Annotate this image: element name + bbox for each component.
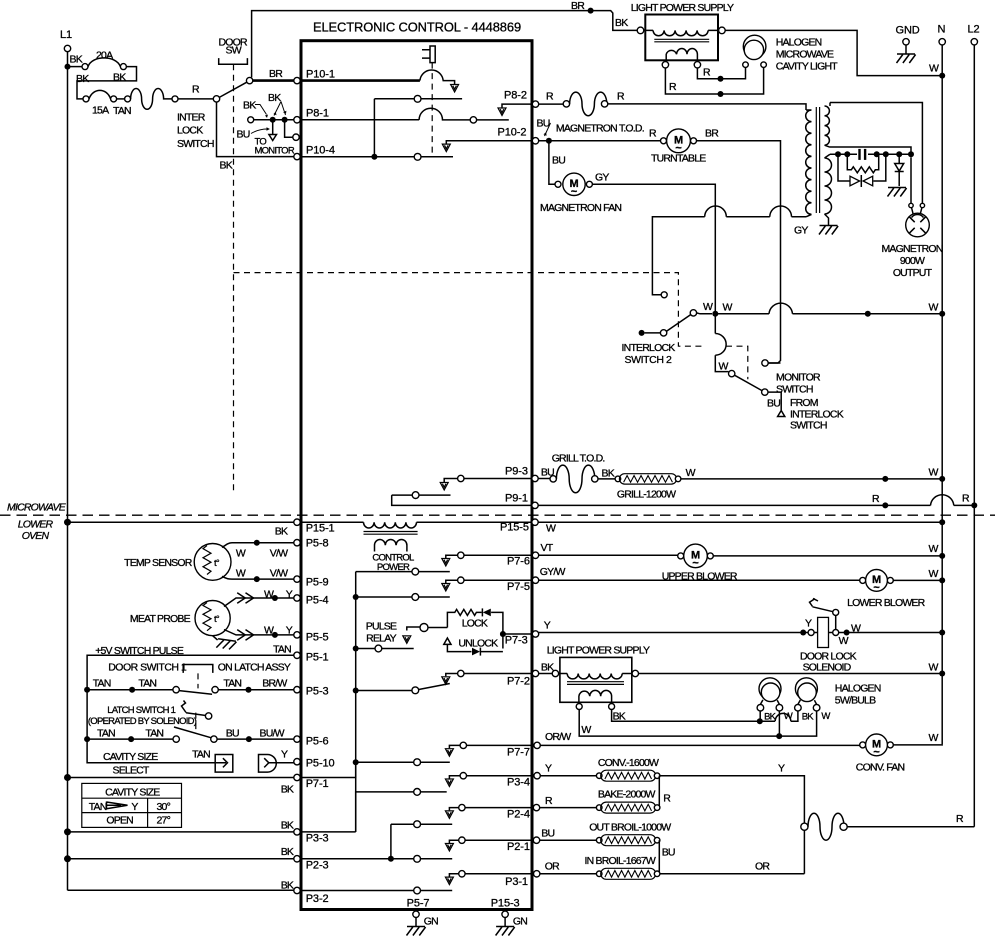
svg-text:~: ~ bbox=[873, 747, 880, 759]
latch bracket bbox=[183, 665, 213, 673]
lower blower motor bbox=[866, 570, 888, 592]
transformer T1 light power supply box bbox=[645, 15, 718, 61]
svg-text:TAN: TAN bbox=[192, 749, 210, 761]
pin P15-1 bbox=[294, 519, 300, 525]
svg-text:P5-8: P5-8 bbox=[306, 538, 329, 550]
svg-text:P5-5: P5-5 bbox=[306, 632, 329, 644]
hump over GY vertical bbox=[705, 206, 727, 217]
svg-text:MICROWAVE: MICROWAVE bbox=[776, 49, 834, 61]
svg-text:5W/BULB: 5W/BULB bbox=[835, 695, 876, 707]
svg-text:TAN: TAN bbox=[138, 678, 156, 690]
probe plug chevrons bbox=[237, 593, 253, 604]
junction bbox=[844, 630, 850, 636]
relay P7-7 contact bbox=[467, 744, 534, 746]
wire P7-2 to light supply 2 bbox=[539, 673, 553, 675]
svg-text:BU/W: BU/W bbox=[260, 728, 285, 740]
svg-text:BR/W: BR/W bbox=[262, 678, 287, 690]
svg-text:P2-4: P2-4 bbox=[507, 809, 530, 821]
svg-text:P2-1: P2-1 bbox=[507, 841, 530, 853]
svg-text:P5-10: P5-10 bbox=[306, 758, 335, 770]
svg-text:TAN: TAN bbox=[97, 728, 115, 740]
wire fuse 20A to fuse 15A bbox=[77, 67, 137, 99]
pin P10-2 bbox=[532, 138, 538, 144]
lamp pin left bbox=[743, 62, 749, 68]
junction L1 fuse branch bbox=[65, 64, 71, 70]
wire cap row to magnetron bbox=[910, 157, 912, 203]
wire contact to row bbox=[835, 615, 837, 629]
select plug female bbox=[259, 755, 277, 773]
svg-text:GY: GY bbox=[794, 225, 808, 237]
T2 right pin bbox=[632, 670, 638, 676]
latch switch 1 left terminal bbox=[173, 736, 179, 742]
wire P10-2 to arrow bbox=[446, 141, 532, 144]
junction bbox=[718, 76, 724, 82]
svg-text:W: W bbox=[839, 635, 849, 647]
pin P7-3 bbox=[532, 631, 538, 637]
wire P8-2 to arrow bbox=[502, 104, 532, 107]
interlock switch upper contact bbox=[246, 77, 252, 83]
svg-text:W: W bbox=[546, 523, 556, 535]
ground HV transformer bbox=[819, 226, 838, 235]
T1 left pin bbox=[637, 27, 644, 34]
wire P8-1 relay bbox=[300, 119, 419, 121]
magnetron fan motor bbox=[563, 173, 585, 195]
svg-text:BK: BK bbox=[113, 72, 126, 84]
svg-text:P10-4: P10-4 bbox=[306, 145, 335, 157]
upper blower motor bbox=[684, 544, 708, 568]
wire P7-1 to bus bbox=[300, 762, 356, 777]
junction bbox=[939, 577, 945, 583]
temp sensor body bbox=[194, 544, 231, 581]
junction W row mid bbox=[865, 311, 871, 317]
svg-text:BU: BU bbox=[662, 847, 675, 859]
unlock marker triangle bbox=[444, 638, 451, 644]
terminal GND bbox=[903, 39, 909, 45]
relay P9-3 blade bbox=[392, 494, 451, 496]
svg-text:SWITCH: SWITCH bbox=[790, 420, 827, 432]
svg-text:CONV.-1600W: CONV.-1600W bbox=[598, 757, 659, 769]
wire in broil to right bus bbox=[660, 873, 805, 875]
hump over dashed bbox=[715, 334, 726, 356]
thermistor zigzag bbox=[203, 546, 211, 575]
pin P8-1 bbox=[294, 117, 300, 123]
svg-text:SELECT: SELECT bbox=[113, 765, 150, 777]
terminal L1 bbox=[64, 45, 70, 51]
junction P2-3 row bbox=[388, 856, 394, 862]
svg-text:MONITOR: MONITOR bbox=[776, 372, 821, 384]
junction bbox=[272, 632, 278, 638]
wire conv/bake tie bbox=[658, 776, 660, 808]
svg-text:~: ~ bbox=[692, 558, 699, 570]
pin P5-7 bbox=[413, 911, 419, 917]
svg-text:R: R bbox=[663, 793, 671, 805]
pin P10-4 bbox=[294, 153, 300, 159]
monitor switch pole bbox=[729, 370, 735, 376]
wire 15A to TAN connector bbox=[117, 98, 125, 100]
pin P2-1 bbox=[533, 837, 539, 843]
svg-text:OR/W: OR/W bbox=[545, 731, 571, 743]
pin P7-6 bbox=[532, 552, 538, 558]
wire P3-1 to in broil heater bbox=[540, 873, 597, 875]
bus junction dots bbox=[353, 594, 359, 600]
wire lower blower to N bbox=[893, 579, 942, 581]
junction bbox=[882, 502, 888, 508]
connector terminal TAN bbox=[125, 96, 131, 102]
bulb1 leads bbox=[760, 700, 779, 736]
svg-text:W: W bbox=[236, 548, 246, 560]
wire squiggle to L2 bbox=[847, 826, 974, 828]
junction bbox=[800, 630, 806, 636]
svg-text:(OPERATED BY SOLENOID): (OPERATED BY SOLENOID) bbox=[88, 716, 197, 727]
svg-text:W: W bbox=[719, 361, 729, 373]
svg-text:W: W bbox=[929, 732, 939, 744]
probe top lead bbox=[224, 598, 294, 607]
junction N bbox=[939, 671, 945, 677]
junction bbox=[246, 736, 252, 742]
ground GND bbox=[897, 54, 916, 63]
pin P3-4 bbox=[534, 773, 540, 779]
door lock solenoid coil bbox=[818, 617, 829, 647]
svg-text:BR: BR bbox=[571, 0, 585, 12]
svg-text:BK: BK bbox=[76, 73, 89, 85]
wire conv heater to right bus bbox=[660, 776, 805, 874]
svg-text:W: W bbox=[581, 724, 591, 736]
T1 secondary pin right bbox=[694, 62, 700, 68]
svg-text:Y: Y bbox=[286, 589, 293, 601]
svg-text:900W: 900W bbox=[900, 255, 925, 267]
junction monitor 1 bbox=[270, 117, 276, 123]
svg-text:P2-3: P2-3 bbox=[306, 860, 329, 872]
GND stem bbox=[905, 45, 907, 54]
door sw bracket bbox=[219, 58, 248, 64]
latch dashed linkage bbox=[195, 713, 197, 734]
temp sensor bottom lead bbox=[222, 576, 294, 579]
svg-text:W: W bbox=[723, 302, 733, 314]
pulse relay actuator bbox=[403, 636, 411, 644]
svg-text:L2: L2 bbox=[968, 24, 980, 36]
wire P9-1 R row to L2 bbox=[538, 504, 974, 506]
door switch 1 left terminal bbox=[173, 687, 179, 693]
pin P10-1 bbox=[294, 77, 300, 83]
pin P2-3 bbox=[294, 856, 300, 862]
svg-text:P8-1: P8-1 bbox=[306, 108, 329, 120]
svg-text:15A: 15A bbox=[92, 105, 109, 117]
turntable motor bbox=[667, 129, 691, 153]
wire TAN row to door switch bbox=[87, 689, 173, 691]
interlock switch 2 pole dot bbox=[639, 330, 645, 336]
bulb2 leads bbox=[798, 700, 817, 705]
relay P3-1 contact bbox=[465, 873, 534, 875]
svg-text:P5-9: P5-9 bbox=[306, 577, 329, 589]
wire BR door sw to P10-1 (bold) bbox=[253, 79, 295, 82]
svg-text:P7-5: P7-5 bbox=[507, 581, 530, 593]
lock diode bbox=[483, 609, 491, 617]
halogen bulb 1 bbox=[759, 678, 781, 700]
svg-text:DOOR SWITCH 1: DOOR SWITCH 1 bbox=[108, 662, 187, 674]
svg-text:MEAT PROBE: MEAT PROBE bbox=[130, 613, 191, 625]
wire L1 to P3-3 bbox=[68, 831, 294, 833]
svg-text:TAN: TAN bbox=[273, 644, 291, 656]
cavity size table bbox=[82, 783, 182, 827]
conv fan pins bbox=[860, 742, 866, 748]
svg-text:P8-2: P8-2 bbox=[504, 90, 527, 102]
wire TAN bus to select plug bbox=[87, 739, 215, 763]
relay P7-7 blade bbox=[356, 761, 450, 763]
svg-text:CAVITY SIZE: CAVITY SIZE bbox=[103, 751, 158, 763]
probe thermistor bbox=[203, 603, 211, 631]
hump over bulb1 W lead bbox=[775, 713, 791, 721]
svg-text:W: W bbox=[929, 543, 939, 555]
svg-text:OR: OR bbox=[545, 861, 560, 873]
pin P2-4 bbox=[533, 804, 539, 810]
pin P3-2 bbox=[294, 887, 300, 893]
dashed linkage door to interlock2 bbox=[234, 273, 748, 380]
svg-text:BU: BU bbox=[537, 118, 550, 130]
junction bbox=[718, 91, 724, 97]
svg-text:~: ~ bbox=[571, 186, 578, 198]
junction L1 P15-1 bbox=[64, 519, 71, 526]
svg-text:BK: BK bbox=[802, 712, 815, 723]
wire P7-5 to lower blower bbox=[539, 579, 863, 581]
HV filament winding bbox=[825, 154, 832, 225]
actuator arrow bbox=[451, 85, 459, 93]
pin P5-8 bbox=[294, 540, 300, 546]
wire to P5-10 bbox=[277, 762, 294, 764]
wire twist symbol bbox=[131, 89, 172, 110]
svg-text:BU: BU bbox=[226, 728, 239, 740]
svg-text:W: W bbox=[703, 301, 713, 313]
svg-text:CAVITY SIZE: CAVITY SIZE bbox=[105, 787, 160, 799]
svg-text:P3-2: P3-2 bbox=[306, 893, 329, 905]
wire fan GY down to W junction bbox=[592, 184, 728, 371]
fuse 20A right terminal bbox=[120, 64, 126, 70]
TOD left terminal bbox=[563, 101, 569, 107]
svg-text:HALOGEN: HALOGEN bbox=[835, 683, 881, 695]
svg-text:P5-1: P5-1 bbox=[306, 652, 329, 664]
T2 secondary pins bbox=[576, 704, 582, 710]
svg-text:SWITCH 2: SWITCH 2 bbox=[625, 354, 673, 366]
svg-text:MICROWAVE: MICROWAVE bbox=[7, 502, 67, 514]
interlock switch 2 blade bbox=[667, 315, 691, 332]
hump over BR vertical on W row bbox=[769, 303, 793, 314]
heater GRILL-1200W bbox=[615, 476, 621, 482]
terminal N bbox=[939, 39, 945, 45]
svg-text:GY/W: GY/W bbox=[540, 566, 566, 578]
svg-text:P3-3: P3-3 bbox=[306, 833, 329, 845]
pulse relay blade bbox=[356, 648, 375, 650]
relay P2-4 contact bbox=[465, 807, 534, 809]
pin P5-5 bbox=[294, 632, 300, 638]
ground P5-7 GN bbox=[415, 918, 417, 927]
svg-text:BK: BK bbox=[613, 711, 626, 723]
wire grill to N rail bbox=[681, 478, 942, 480]
probe bottom lead bbox=[224, 630, 294, 635]
svg-text:LOCK: LOCK bbox=[462, 618, 488, 630]
svg-text:V/W: V/W bbox=[270, 567, 288, 579]
N rail bbox=[941, 45, 943, 744]
svg-text:BK: BK bbox=[281, 880, 294, 892]
wire interlock common to P10-4 BK bbox=[217, 102, 295, 157]
UNLOCK branch bbox=[447, 645, 503, 652]
wire L1 to P3-2 bbox=[68, 889, 294, 891]
relay P2-4 blade bbox=[391, 824, 452, 859]
wire solenoid to N bbox=[839, 632, 943, 634]
svg-text:GRILL T.O.D.: GRILL T.O.D. bbox=[552, 453, 605, 465]
wire L1 to P7-1 bbox=[68, 777, 294, 779]
wire to P7-3 bbox=[503, 633, 532, 635]
HV transformer primary bbox=[806, 110, 812, 217]
svg-text:P7-6: P7-6 bbox=[507, 556, 530, 568]
svg-text:P7-7: P7-7 bbox=[507, 747, 530, 759]
temp sensor top lead bbox=[222, 543, 294, 548]
wire GY transformer to interlock switch 2 bbox=[652, 217, 806, 295]
svg-text:MONITOR: MONITOR bbox=[255, 146, 295, 157]
svg-text:Y: Y bbox=[544, 620, 551, 632]
wire P2-3 row bbox=[300, 858, 452, 860]
buzzer symbol bbox=[422, 46, 435, 63]
junction N rail bbox=[939, 519, 945, 525]
wire TAN bus down bbox=[86, 690, 88, 739]
relay P7-6 contact bbox=[464, 554, 532, 556]
relay P3-4 contact bbox=[467, 775, 534, 777]
bulb2 pins bbox=[795, 704, 802, 711]
svg-text:UNLOCK: UNLOCK bbox=[458, 638, 498, 650]
wire P9-3 to grill TOD bbox=[538, 478, 550, 480]
pin P7-2 bbox=[532, 670, 538, 676]
grill TOD left terminal bbox=[550, 476, 556, 482]
ground diode bbox=[888, 188, 907, 197]
svg-text:BU: BU bbox=[767, 398, 780, 410]
zener diode to ground bbox=[898, 154, 900, 186]
latch switch 1 right terminal bbox=[211, 736, 217, 742]
svg-text:TAN: TAN bbox=[223, 678, 241, 690]
wire upper blower to N bbox=[713, 555, 942, 557]
junction L2 bbox=[971, 502, 977, 508]
svg-text:P15-1: P15-1 bbox=[306, 523, 335, 535]
control power secondary bbox=[375, 540, 407, 552]
svg-text:MAGNETRON T.O.D.: MAGNETRON T.O.D. bbox=[556, 123, 644, 135]
svg-text:GN: GN bbox=[424, 916, 438, 928]
wire broil tie bbox=[658, 840, 660, 874]
svg-text:BK: BK bbox=[275, 526, 288, 538]
monitor switch blade bbox=[735, 375, 763, 390]
junction monitor 2 bbox=[282, 117, 288, 123]
ground P15-3 GN bbox=[504, 918, 506, 927]
svg-text:PULSE: PULSE bbox=[366, 621, 397, 633]
svg-text:BR: BR bbox=[269, 68, 283, 80]
relay P9-3: contact wire bbox=[464, 478, 532, 480]
probe ground bbox=[213, 636, 218, 640]
svg-text:P3-4: P3-4 bbox=[507, 777, 530, 789]
hump over N rail bbox=[931, 495, 954, 506]
pin P5-4 bbox=[294, 595, 300, 601]
L2 rail bbox=[973, 45, 975, 827]
pin P7-7 bbox=[534, 742, 540, 748]
hump over BR vertical bbox=[770, 206, 792, 217]
wire P10-2 to turntable bbox=[539, 140, 661, 142]
wire P3-2 blade row bbox=[300, 890, 452, 892]
relay P7-6 blade bbox=[356, 571, 450, 573]
HV transformer core bbox=[816, 107, 819, 213]
svg-text:W: W bbox=[236, 567, 246, 579]
wire to-monitor stem bbox=[272, 120, 274, 134]
junction W row N rail bbox=[939, 311, 945, 317]
svg-text:P7-3: P7-3 bbox=[505, 635, 528, 647]
svg-text:27°: 27° bbox=[157, 815, 171, 827]
svg-text:20A: 20A bbox=[96, 50, 113, 62]
wire to P5-3 bbox=[218, 689, 293, 691]
wire P7-3 to door lock solenoid bbox=[539, 632, 808, 634]
junction N bbox=[939, 630, 945, 636]
wire R rail TOD to HV transformer bbox=[608, 104, 806, 110]
svg-text:BU: BU bbox=[552, 155, 565, 167]
svg-text:SW: SW bbox=[226, 45, 242, 57]
fuse 15A bbox=[89, 90, 111, 99]
T1 primary bbox=[644, 30, 719, 35]
contact circle bbox=[414, 95, 421, 102]
wire P2-1 to out broil heater bbox=[540, 839, 597, 841]
electronic control box bbox=[301, 41, 532, 910]
svg-text:SOLENOID: SOLENOID bbox=[803, 662, 852, 674]
relay contact hump P10-1 bbox=[420, 70, 455, 84]
interlock switch common terminal bbox=[213, 96, 219, 102]
svg-text:OUTPUT: OUTPUT bbox=[893, 267, 933, 279]
wire BR vertical corner to monitor upper contact bbox=[768, 362, 780, 364]
pin P5-3 bbox=[294, 687, 300, 693]
door lock switch contact bbox=[833, 609, 839, 615]
T1 core bbox=[654, 39, 709, 42]
solenoid right terminal bbox=[833, 630, 839, 636]
svg-text:P5-3: P5-3 bbox=[306, 686, 329, 698]
svg-text:OUT BROIL-1000W: OUT BROIL-1000W bbox=[589, 822, 671, 834]
svg-text:TEMP SENSOR: TEMP SENSOR bbox=[124, 557, 193, 569]
junction bbox=[254, 576, 260, 582]
svg-text:W: W bbox=[929, 302, 939, 314]
svg-text:BK: BK bbox=[243, 100, 256, 112]
HV secondary upper bbox=[825, 103, 831, 148]
junction bbox=[129, 687, 135, 693]
wire P7-7 to conv fan bbox=[540, 744, 862, 746]
door lock switch blade bbox=[813, 607, 834, 612]
T2 secondary bbox=[579, 690, 612, 703]
svg-text:SWITCH: SWITCH bbox=[177, 138, 214, 150]
svg-text:BK: BK bbox=[764, 712, 777, 723]
contact circle P10-4 bbox=[414, 153, 421, 160]
svg-text:Y: Y bbox=[131, 801, 138, 813]
TOD right terminal bbox=[601, 101, 607, 107]
interlock switch 2 contact bbox=[690, 310, 696, 316]
junction bbox=[882, 476, 888, 482]
monitor switch left contact bbox=[248, 117, 254, 123]
wire TOD to grill heater bbox=[598, 478, 615, 480]
wire P10-4 row inside bbox=[300, 156, 453, 158]
svg-text:Y: Y bbox=[778, 763, 785, 775]
marker triangle TO MONITOR bbox=[269, 135, 277, 141]
svg-text:BK: BK bbox=[70, 54, 83, 66]
junction dots cap row bbox=[835, 151, 841, 157]
separator dashed microwave/lower-oven bbox=[0, 514, 995, 516]
svg-text:TAN: TAN bbox=[89, 801, 107, 813]
heater IN BROIL-1667W bbox=[596, 871, 602, 877]
junction on P10-4 row bbox=[371, 154, 377, 160]
svg-text:BK: BK bbox=[281, 784, 294, 796]
lamp pin right bbox=[761, 62, 767, 68]
wire HV top lead bbox=[830, 103, 922, 204]
T1 right pin bbox=[719, 27, 726, 34]
door sw linkage dashed bbox=[233, 64, 235, 491]
pin P9-1 bbox=[532, 502, 538, 508]
relay P3-4 blade bbox=[356, 792, 447, 832]
